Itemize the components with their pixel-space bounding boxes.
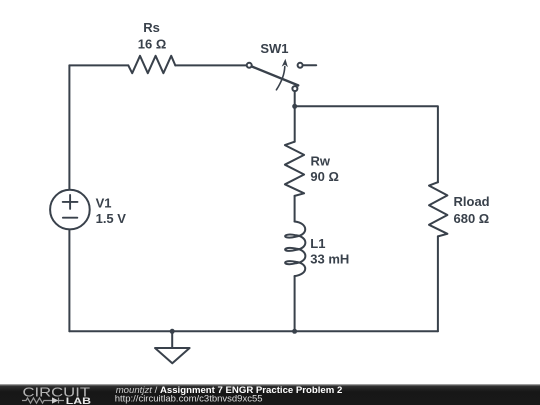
wire node down to Rw bbox=[294, 106, 296, 141]
junction node middle branch bottom bbox=[292, 329, 297, 334]
svg-text:16 Ω: 16 Ω bbox=[138, 36, 167, 51]
CircuitLab logo schematic: diode triangle bbox=[52, 397, 59, 403]
switch SW1 blade bbox=[252, 66, 299, 85]
wire V1 bottom to bottom-left corner bbox=[68, 230, 70, 331]
svg-text:90 Ω: 90 Ω bbox=[310, 169, 339, 184]
switch SW1 right terminal bbox=[298, 63, 303, 68]
wire L1 to bottom bbox=[294, 276, 296, 331]
ground symbol triangle bbox=[155, 348, 190, 363]
wire switch common down to node bbox=[294, 91, 296, 106]
svg-text:L1: L1 bbox=[310, 236, 325, 251]
switch SW1 left terminal bbox=[247, 63, 252, 68]
svg-text:33 mH: 33 mH bbox=[310, 252, 349, 267]
resistor Rs bbox=[128, 56, 175, 73]
switch SW1 actuation arrow arc bbox=[276, 67, 284, 90]
wire Rs to SW1 left terminal bbox=[175, 64, 246, 66]
voltage source V1 bbox=[50, 190, 90, 230]
svg-text:Rs: Rs bbox=[143, 20, 160, 35]
wire top-left horizontal bbox=[69, 64, 128, 66]
svg-text:Rload: Rload bbox=[454, 194, 490, 209]
junction node at switch common bbox=[292, 104, 297, 109]
resistor Rw bbox=[285, 142, 304, 196]
CircuitLab logo schematic: resistor zigzag bbox=[22, 398, 64, 404]
wire bottom horizontal bbox=[69, 330, 438, 332]
inductor L1 bbox=[285, 222, 305, 277]
CircuitLab logo schematic: diode bar and wire bbox=[58, 398, 60, 404]
svg-text:http://circuitlab.com/c3tbnvsd: http://circuitlab.com/c3tbnvsd9xc55 bbox=[115, 394, 263, 405]
svg-text:SW1: SW1 bbox=[260, 41, 288, 56]
V1 minus sign bbox=[63, 217, 77, 219]
wire node to Rload top bbox=[295, 106, 438, 182]
switch SW1 common terminal bbox=[292, 86, 297, 91]
switch SW1 right stub wire bbox=[303, 64, 316, 66]
svg-text:Rw: Rw bbox=[311, 153, 331, 168]
svg-text:1.5 V: 1.5 V bbox=[96, 211, 127, 226]
V1 plus sign bbox=[63, 195, 78, 209]
ground stem bbox=[171, 331, 173, 348]
svg-text:680 Ω: 680 Ω bbox=[454, 211, 490, 226]
junction node at ground bbox=[170, 329, 175, 334]
resistor Rload bbox=[429, 182, 447, 236]
wire left vertical (top corner to V1 top) bbox=[68, 65, 70, 188]
wire Rw to L1 bbox=[294, 196, 296, 222]
svg-text:V1: V1 bbox=[96, 195, 112, 210]
switch arrow head bbox=[282, 59, 288, 67]
svg-text:LAB: LAB bbox=[66, 396, 91, 405]
wire Rload bottom bbox=[437, 236, 439, 331]
